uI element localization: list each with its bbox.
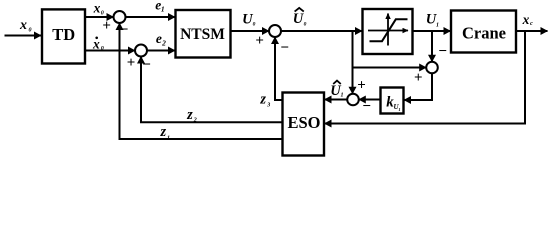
svg-text:−: − bbox=[142, 57, 151, 73]
svg-text:1: 1 bbox=[167, 136, 170, 142]
svg-text:z: z bbox=[186, 107, 193, 123]
svg-text:+: + bbox=[102, 18, 111, 34]
svg-text:−: − bbox=[362, 99, 371, 115]
svg-text:x: x bbox=[92, 37, 100, 52]
svg-text:−: − bbox=[280, 40, 289, 56]
svg-text:2: 2 bbox=[193, 118, 197, 124]
svg-text:ESO: ESO bbox=[287, 113, 320, 132]
svg-text:z: z bbox=[259, 92, 266, 108]
svg-text:−: − bbox=[120, 22, 129, 38]
svg-text:1: 1 bbox=[161, 4, 165, 13]
svg-text:z: z bbox=[159, 124, 166, 140]
svg-text:0: 0 bbox=[304, 21, 307, 27]
svg-text:1: 1 bbox=[398, 107, 400, 112]
svg-text:0: 0 bbox=[101, 11, 104, 17]
svg-text:+: + bbox=[255, 33, 264, 49]
svg-text:2: 2 bbox=[161, 39, 166, 48]
svg-text:3: 3 bbox=[266, 103, 270, 109]
svg-text:1: 1 bbox=[436, 22, 439, 28]
svg-text:NTSM: NTSM bbox=[180, 26, 225, 43]
svg-text:0: 0 bbox=[29, 27, 32, 33]
svg-text:+: + bbox=[414, 70, 423, 86]
svg-text:x: x bbox=[522, 12, 530, 27]
svg-text:x: x bbox=[19, 18, 27, 33]
svg-text:0: 0 bbox=[101, 46, 104, 52]
svg-text:e: e bbox=[156, 31, 162, 46]
svg-text:1: 1 bbox=[341, 93, 344, 99]
svg-text:c: c bbox=[530, 21, 533, 27]
svg-text:TD: TD bbox=[52, 25, 75, 44]
svg-text:+: + bbox=[127, 55, 136, 71]
svg-text:+: + bbox=[357, 78, 366, 94]
svg-text:x: x bbox=[93, 0, 101, 15]
svg-text:−: − bbox=[438, 43, 447, 59]
svg-text:Crane: Crane bbox=[462, 24, 506, 43]
svg-text:0: 0 bbox=[253, 21, 256, 27]
